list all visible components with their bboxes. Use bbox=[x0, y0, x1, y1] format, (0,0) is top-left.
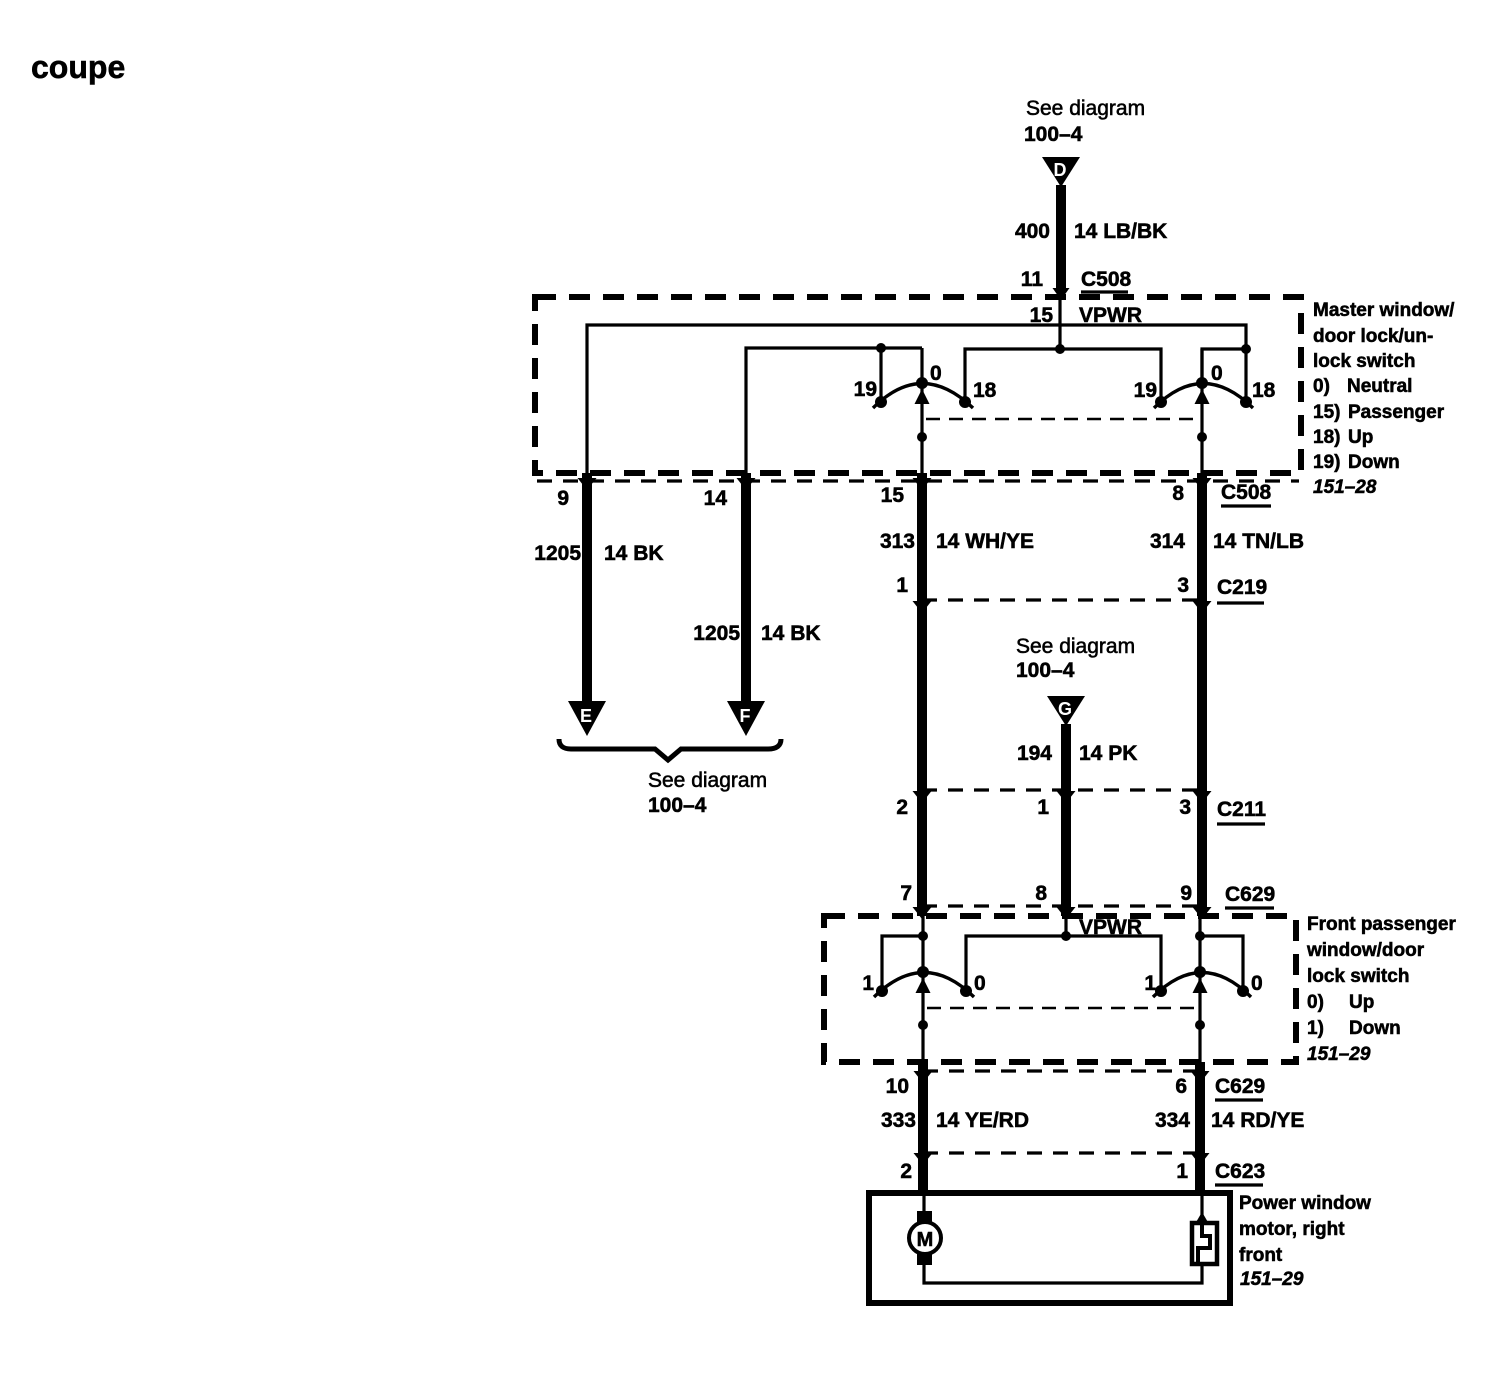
svg-text:0: 0 bbox=[1251, 972, 1263, 995]
connector C219 label bbox=[1217, 576, 1267, 603]
label: wire 314, 14 TN/LB bbox=[1150, 530, 1304, 553]
master switch, passenger rocker (right): contact 19 Down bbox=[1155, 396, 1167, 408]
label: wire 1205, 14 BK (left) bbox=[534, 542, 663, 565]
pin 11 of C508 bbox=[1021, 268, 1044, 291]
wire: right pivot feed to VPWR drop bbox=[1202, 349, 1246, 383]
svg-text:334: 334 bbox=[1155, 1109, 1190, 1132]
svg-text:9: 9 bbox=[557, 487, 569, 510]
svg-text:100–4: 100–4 bbox=[1024, 123, 1083, 146]
pin 10 of C629 bbox=[886, 1075, 909, 1098]
svg-text:19: 19 bbox=[854, 378, 877, 401]
passenger switch, rocker (left): contact arc bbox=[874, 973, 974, 998]
svg-text:0: 0 bbox=[974, 972, 986, 995]
wire: circuit 1205 14 BK from pin 14 to connector F bbox=[737, 473, 756, 703]
svg-text:1: 1 bbox=[1144, 972, 1156, 995]
svg-text:F: F bbox=[740, 706, 751, 726]
off-page connector G (from diagram 100-4) bbox=[1047, 696, 1085, 726]
circuit breaker (thermal) symbol bbox=[1192, 1223, 1217, 1264]
passenger switch, rocker (left): contact 0 Up bbox=[960, 985, 972, 997]
label: positions 19 / 0 / 18 (left rocker) bbox=[854, 362, 997, 402]
wire: right feed (pin 9) down to right pivot and out to pin 6 bbox=[1198, 916, 1201, 1062]
svg-text:100–4: 100–4 bbox=[1016, 659, 1075, 682]
off-page connector F (to diagram 100-4) bbox=[727, 701, 765, 736]
svg-text:14: 14 bbox=[704, 487, 728, 510]
junction: VPWR drop at right switch bbox=[1241, 344, 1251, 354]
svg-text:Down: Down bbox=[1348, 452, 1400, 473]
svg-text:10: 10 bbox=[886, 1075, 909, 1098]
pin 8 of C629 bbox=[1035, 882, 1047, 905]
svg-text:14 BK: 14 BK bbox=[761, 622, 821, 645]
connector C629 label (top) bbox=[1225, 883, 1275, 908]
label: positions 1 / 0 (right rocker) bbox=[1144, 972, 1262, 995]
svg-text:151–29: 151–29 bbox=[1240, 1269, 1304, 1290]
svg-text:Power window: Power window bbox=[1239, 1193, 1371, 1214]
connector C623 dashed line bbox=[923, 1151, 1200, 1154]
svg-text:See diagram: See diagram bbox=[1026, 97, 1145, 120]
passenger switch, rocker (right): wiper arrow bbox=[1193, 978, 1208, 993]
svg-text:151–29: 151–29 bbox=[1307, 1044, 1371, 1065]
svg-text:15: 15 bbox=[881, 484, 905, 507]
pin 1 of C219 bbox=[896, 574, 908, 597]
svg-text:14 PK: 14 PK bbox=[1079, 742, 1137, 765]
motor M1: body bbox=[909, 1222, 941, 1254]
svg-text:C219: C219 bbox=[1217, 576, 1267, 599]
svg-text:14 YE/RD: 14 YE/RD bbox=[936, 1109, 1029, 1132]
wire: VPWR bus between Up contact (left) and Down contact (right) bbox=[966, 931, 1161, 987]
label: wire 333, 14 YE/RD bbox=[881, 1109, 1029, 1132]
label: wire 194, 14 PK bbox=[1017, 742, 1137, 765]
master switch, passenger rocker (right): wiper arrow bbox=[1195, 389, 1210, 404]
svg-text:194: 194 bbox=[1017, 742, 1052, 765]
svg-text:3: 3 bbox=[1179, 796, 1191, 819]
wire: circuit 333 14 YE/RD from C629 pin 10 to C623 pin 2 bbox=[914, 1062, 933, 1165]
off-page connector E (to diagram 100-4) bbox=[568, 701, 606, 736]
pin 3 of C219 bbox=[1177, 574, 1189, 597]
junction on left wiper (passenger) bbox=[918, 1020, 928, 1030]
label: wire 400, 14 LB/BK bbox=[1015, 220, 1167, 243]
master switch, passenger rocker (right): contact arc bbox=[1154, 384, 1253, 409]
wire: branch from left feed to Down contact 1 bbox=[882, 931, 928, 987]
svg-text:Neutral: Neutral bbox=[1347, 376, 1412, 397]
svg-text:0): 0) bbox=[1313, 376, 1330, 397]
label: wire 1205, 14 BK (right) bbox=[693, 622, 820, 645]
svg-text:6: 6 bbox=[1175, 1075, 1187, 1098]
wire: 333 stub into motor box bbox=[918, 1155, 928, 1196]
wire: circuit 400 14 LB/BK from connector D to C508 pin 11 bbox=[1053, 185, 1070, 300]
svg-text:front: front bbox=[1239, 1245, 1283, 1266]
svg-text:1: 1 bbox=[1176, 1160, 1188, 1183]
power window motor, right front: component box bbox=[869, 1193, 1230, 1303]
wire: VPWR bus inside master switch (pin 9 riser, bus, drop to Up contact) bbox=[587, 325, 1246, 473]
svg-text:1: 1 bbox=[1037, 796, 1049, 819]
svg-text:Passenger: Passenger bbox=[1348, 402, 1445, 423]
connector C508 (bottom of master switch), dashed connector line bbox=[537, 479, 1299, 482]
svg-text:0): 0) bbox=[1307, 992, 1324, 1013]
svg-text:8: 8 bbox=[1035, 882, 1047, 905]
pin 3 of C211 bbox=[1179, 796, 1191, 819]
passenger switch, rocker (left): pivot bbox=[917, 966, 929, 978]
svg-text:333: 333 bbox=[881, 1109, 916, 1132]
motor M1: upper brush bbox=[917, 1211, 932, 1223]
passenger switch, rocker (right): contact 1 Down bbox=[1155, 985, 1167, 997]
master switch, window rocker (left): contact arc bbox=[873, 384, 973, 409]
wire: circuit 314 14 TN/LB from C508 pin 8 down through C219/C211 to C629 pin 9 bbox=[1193, 473, 1212, 919]
wire: pin 14 riser and feed to left pivot bbox=[746, 348, 922, 473]
svg-text:C629: C629 bbox=[1225, 883, 1275, 906]
wire: circuit 1205 14 BK from pin 9 to connector E bbox=[578, 473, 597, 703]
wire: VPWR riser (pin 8) to bus bbox=[1064, 916, 1067, 936]
svg-text:1: 1 bbox=[862, 972, 874, 995]
label: positions 1 / 0 (left rocker) bbox=[862, 972, 985, 995]
master switch, window rocker (left): wiper arrow bbox=[915, 389, 930, 404]
passenger switch, rocker (right): contact 0 Up bbox=[1237, 985, 1249, 997]
svg-text:2: 2 bbox=[900, 1160, 912, 1183]
junction on left wiper bbox=[917, 432, 927, 442]
pin 7 of C629 bbox=[900, 882, 912, 905]
wire: right wiper vertical (pin 8) bbox=[1200, 349, 1203, 473]
svg-text:Master window/: Master window/ bbox=[1313, 300, 1455, 321]
node: internal node 15, net VPWR bbox=[1030, 304, 1142, 327]
label: front passenger switch name and positions bbox=[1306, 914, 1456, 1065]
pin 2 of C623 bbox=[900, 1160, 912, 1183]
pin 2 of C211 bbox=[896, 796, 908, 819]
connector C508 label (bottom) bbox=[1221, 481, 1272, 506]
connector C211 label bbox=[1217, 798, 1266, 824]
svg-text:See diagram: See diagram bbox=[648, 769, 767, 792]
wire: circuit 194 continues from C211 to C629 pin 8 bbox=[1057, 790, 1076, 919]
label: master switch name and positions bbox=[1313, 300, 1455, 498]
svg-text:313: 313 bbox=[880, 530, 915, 553]
master switch, window rocker (left): contact 19 Down bbox=[875, 396, 887, 408]
wire: motor feed inside box bbox=[922, 1196, 925, 1213]
circuit breaker: feed arrow bbox=[1195, 1196, 1209, 1224]
master switch, window rocker (left): contact 18 Up bbox=[959, 396, 971, 408]
wire: distribution line between left 18 contact and right 19 contact bbox=[965, 349, 1161, 398]
svg-text:314: 314 bbox=[1150, 530, 1185, 553]
svg-text:E: E bbox=[580, 706, 592, 726]
svg-text:Front passenger: Front passenger bbox=[1307, 914, 1456, 935]
master switch, window rocker (left): pivot 0 bbox=[916, 377, 928, 389]
pin 1 of C211 bbox=[1037, 796, 1049, 819]
svg-text:19): 19) bbox=[1313, 452, 1340, 473]
title "coupe" bbox=[31, 49, 125, 85]
junction on right wiper (passenger) bbox=[1195, 1020, 1205, 1030]
connector C629 dashed line (bottom) bbox=[923, 1069, 1200, 1072]
master switch, passenger rocker (right): contact 18 Up bbox=[1240, 396, 1252, 408]
svg-text:15): 15) bbox=[1313, 402, 1340, 423]
svg-text:C211: C211 bbox=[1217, 798, 1266, 821]
wire: left wiper vertical (pin 15) bbox=[920, 348, 923, 473]
svg-text:Down: Down bbox=[1349, 1018, 1401, 1039]
svg-text:C623: C623 bbox=[1215, 1160, 1265, 1183]
svg-text:14 LB/BK: 14 LB/BK bbox=[1074, 220, 1167, 243]
svg-text:3: 3 bbox=[1177, 574, 1189, 597]
svg-text:14 BK: 14 BK bbox=[604, 542, 664, 565]
connector C508 label (top) bbox=[1081, 268, 1132, 292]
brace grouping connectors E and F bbox=[559, 739, 781, 760]
connector C219 dashed line bbox=[922, 598, 1202, 601]
wire: drop to left switch Down contact bbox=[876, 343, 886, 398]
junction on right wiper bbox=[1197, 432, 1207, 442]
pin 14 of C508 bbox=[704, 487, 728, 510]
svg-text:C629: C629 bbox=[1215, 1075, 1265, 1098]
master switch, passenger rocker (right): pivot 0 bbox=[1196, 377, 1208, 389]
label: wire 313, 14 WH/YE bbox=[880, 530, 1034, 553]
wire: circuit 194 14 PK from connector G to C211 pin 1 bbox=[1057, 724, 1076, 803]
off-page connector D (from diagram 100-4) bbox=[1042, 157, 1080, 187]
pin 9 of C629 bbox=[1180, 882, 1192, 905]
passenger switch, rocker (left): contact 1 Down bbox=[876, 985, 888, 997]
svg-text:0: 0 bbox=[1211, 362, 1223, 385]
motor M1: lower brush bbox=[917, 1253, 932, 1265]
wire: circuit 334 14 RD/YE from C629 pin 6 to C623 pin 1 bbox=[1191, 1062, 1210, 1165]
pin 9 of C508 bbox=[557, 487, 569, 510]
svg-text:7: 7 bbox=[900, 882, 912, 905]
svg-text:lock switch: lock switch bbox=[1313, 351, 1415, 372]
pin 8 of C508 bbox=[1172, 482, 1184, 505]
svg-text:lock switch: lock switch bbox=[1307, 966, 1409, 987]
svg-text:window/door: window/door bbox=[1306, 940, 1425, 961]
svg-text:14 RD/YE: 14 RD/YE bbox=[1211, 1109, 1304, 1132]
passenger switch, rocker (right): contact arc bbox=[1153, 973, 1251, 998]
svg-text:Up: Up bbox=[1348, 427, 1373, 448]
wire: branch from right feed to Up contact 0 bbox=[1195, 931, 1243, 987]
svg-text:400: 400 bbox=[1015, 220, 1050, 243]
svg-text:18): 18) bbox=[1313, 427, 1340, 448]
wire: circuit 313 14 WH/YE from C508 pin 15 down through C219/C211 to C629 pin 7 bbox=[913, 473, 932, 919]
pin 15 of C508 bbox=[881, 484, 905, 507]
connector C629 dashed line (top) bbox=[922, 904, 1202, 907]
svg-text:coupe: coupe bbox=[31, 49, 125, 85]
label: wire 334, 14 RD/YE bbox=[1155, 1109, 1304, 1132]
wire: left feed (pin 7) down to left pivot and out to pin 10 bbox=[921, 916, 924, 1062]
svg-text:9: 9 bbox=[1180, 882, 1192, 905]
svg-text:2: 2 bbox=[896, 796, 908, 819]
note: See diagram 100-4 (for connector G) bbox=[1016, 635, 1135, 682]
svg-text:0: 0 bbox=[930, 362, 942, 385]
svg-text:151–28: 151–28 bbox=[1313, 477, 1377, 498]
note: See diagram 100-4 (top, for connector D) bbox=[1024, 97, 1145, 146]
front passenger window/door lock switch: component box bbox=[824, 916, 1296, 1062]
passenger switch, rocker (left): wiper arrow bbox=[916, 978, 931, 993]
connector C629 label (bottom) bbox=[1215, 1075, 1265, 1100]
node: net VPWR inside passenger switch bbox=[1079, 916, 1142, 939]
wire: VPWR entry riser from C508 pin 11 bbox=[1058, 299, 1061, 349]
svg-text:1: 1 bbox=[896, 574, 908, 597]
svg-text:100–4: 100–4 bbox=[648, 794, 707, 817]
svg-text:1): 1) bbox=[1307, 1018, 1324, 1039]
svg-text:11: 11 bbox=[1021, 268, 1044, 291]
svg-text:14 WH/YE: 14 WH/YE bbox=[936, 530, 1034, 553]
wire: 334 stub into motor box bbox=[1195, 1155, 1205, 1196]
svg-text:1205: 1205 bbox=[693, 622, 740, 645]
note: See diagram 100-4 (below E/F) bbox=[648, 769, 767, 817]
svg-text:14 TN/LB: 14 TN/LB bbox=[1213, 530, 1304, 553]
pin 6 of C629 bbox=[1175, 1075, 1187, 1098]
svg-text:C508: C508 bbox=[1221, 481, 1272, 504]
passenger switch, rocker (right): pivot bbox=[1194, 966, 1206, 978]
svg-text:M: M bbox=[917, 1229, 934, 1251]
svg-text:D: D bbox=[1054, 160, 1067, 180]
svg-text:motor, right: motor, right bbox=[1239, 1219, 1345, 1240]
svg-text:18: 18 bbox=[973, 379, 997, 402]
pin 1 of C623 bbox=[1176, 1160, 1188, 1183]
connector C211 dashed line bbox=[922, 788, 1202, 791]
junction: VPWR entry on distribution line bbox=[1055, 344, 1065, 354]
wire: motor return loop to circuit breaker bbox=[924, 1264, 1202, 1283]
svg-text:See diagram: See diagram bbox=[1016, 635, 1135, 658]
svg-text:C508: C508 bbox=[1081, 268, 1132, 291]
label: power window motor, right front bbox=[1239, 1193, 1371, 1290]
mechanical link between passenger rockers (dashed) bbox=[927, 1007, 1197, 1010]
svg-text:G: G bbox=[1058, 699, 1072, 719]
svg-text:Up: Up bbox=[1349, 992, 1374, 1013]
svg-text:1205: 1205 bbox=[534, 542, 581, 565]
svg-text:18: 18 bbox=[1252, 379, 1276, 402]
svg-text:19: 19 bbox=[1134, 379, 1157, 402]
svg-text:8: 8 bbox=[1172, 482, 1184, 505]
connector C623 label bbox=[1215, 1160, 1265, 1185]
label: positions 19 / 0 / 18 (right rocker) bbox=[1134, 362, 1276, 402]
mechanical link between master rockers (dashed) bbox=[926, 418, 1198, 421]
master window/door lock/unlock switch: component box bbox=[535, 297, 1301, 473]
svg-text:door lock/un-: door lock/un- bbox=[1313, 326, 1433, 347]
